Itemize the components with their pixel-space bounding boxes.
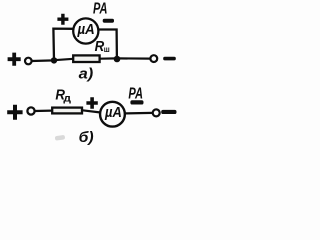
svg-text:а): а) bbox=[79, 66, 94, 83]
minus polarity mark at meter PA, circuit a bbox=[103, 19, 114, 23]
wire node A to resistor Rsh bbox=[54, 59, 74, 60]
svg-text:PA: PA bbox=[93, 1, 108, 18]
minus polarity mark at meter PA, circuit b bbox=[130, 100, 143, 104]
microammeter PA, circuit a bbox=[73, 18, 98, 43]
minus polarity mark, circuit b output bbox=[161, 110, 176, 114]
scan smudge bbox=[55, 135, 66, 141]
plus polarity mark at meter PA, circuit a bbox=[57, 14, 68, 25]
svg-text:б): б) bbox=[79, 129, 94, 146]
svg-text:ш: ш bbox=[104, 44, 110, 54]
resistor Rsh body bbox=[73, 55, 99, 62]
svg-text:PA: PA bbox=[128, 86, 143, 103]
terminal, circuit a minus bbox=[150, 55, 157, 62]
terminal, circuit a plus bbox=[25, 58, 32, 65]
wire, left parallel branch up from node A bbox=[53, 29, 73, 61]
svg-text:µA: µA bbox=[77, 21, 95, 38]
terminal, circuit b plus bbox=[27, 107, 34, 114]
resistor Rd body bbox=[52, 108, 82, 114]
plus polarity mark, circuit b input bbox=[7, 105, 22, 120]
wire resistor Rd to meter PA bbox=[83, 110, 100, 112]
wire from plus terminal to node A bbox=[32, 59, 54, 62]
plus polarity mark at meter PA, circuit b bbox=[86, 97, 97, 108]
wire plus terminal to resistor Rd bbox=[35, 109, 52, 112]
wire, right parallel branch from meter down to node B bbox=[98, 30, 117, 59]
svg-text:д: д bbox=[63, 93, 71, 105]
wire node B to minus terminal bbox=[117, 57, 150, 59]
junction node A bbox=[51, 57, 57, 63]
terminal, circuit b minus bbox=[153, 109, 160, 116]
wire meter PA to minus terminal bbox=[125, 112, 152, 115]
plus polarity mark, circuit a input bbox=[8, 53, 21, 66]
junction node B bbox=[114, 56, 121, 63]
minus polarity mark, circuit a output bbox=[163, 57, 176, 61]
microammeter PA, circuit b bbox=[100, 102, 125, 127]
svg-text:µA: µA bbox=[104, 104, 122, 121]
wire resistor Rsh to node B bbox=[100, 57, 117, 59]
